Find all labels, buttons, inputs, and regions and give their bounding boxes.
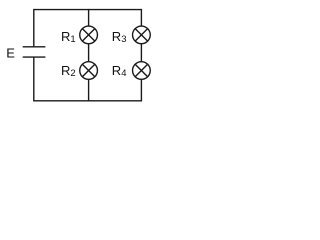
label R4 <box>112 63 127 79</box>
lamp R4 <box>133 62 151 80</box>
svg-text:R3: R3 <box>112 29 127 45</box>
wire: top bus from battery branch to right branch <box>34 9 142 11</box>
svg-text:R4: R4 <box>112 63 127 79</box>
lamp R1 <box>80 26 98 44</box>
label R1 <box>61 29 76 45</box>
lamp R3 <box>133 26 151 44</box>
label E (source value) <box>6 46 15 61</box>
svg-text:R2: R2 <box>61 63 76 79</box>
wire: left branch above battery E <box>33 9 35 47</box>
wire: bottom bus from battery branch to right branch <box>34 100 142 102</box>
wire: middle branch (through R1, R2) <box>88 9 90 102</box>
svg-text:E: E <box>6 46 15 61</box>
battery E: top plate <box>23 46 46 48</box>
wire: right branch (through R3, R4) <box>140 9 142 102</box>
label R3 <box>112 29 127 45</box>
label R2 <box>61 63 76 79</box>
wire: left branch below battery E <box>33 57 35 101</box>
battery E: bottom plate <box>23 56 46 58</box>
svg-text:R1: R1 <box>61 29 76 45</box>
lamp R2 <box>80 62 98 80</box>
